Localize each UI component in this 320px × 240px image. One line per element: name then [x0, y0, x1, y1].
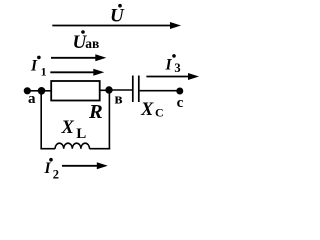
wire capacitor to node c — [140, 90, 180, 92]
svg-text:X: X — [61, 118, 75, 138]
svg-text:I: I — [165, 56, 173, 73]
svg-text:ав: ав — [85, 36, 99, 51]
node b junction dot — [105, 86, 112, 93]
current arrow I3 — [146, 73, 199, 80]
inductor XL — [55, 143, 89, 149]
label I2 — [44, 158, 59, 181]
wire right branch vertical — [108, 90, 110, 150]
node a junction dot — [38, 87, 46, 95]
voltage arrow U — [52, 22, 181, 29]
resistor R — [51, 81, 99, 101]
svg-text:I: I — [44, 160, 52, 177]
voltage arrow Uав — [51, 54, 106, 61]
wire node a to resistor — [42, 90, 53, 92]
svg-text:с: с — [177, 95, 184, 111]
label Uав — [73, 30, 100, 53]
label XL — [61, 118, 87, 142]
wire node b to capacitor — [109, 89, 132, 91]
svg-text:а: а — [28, 91, 36, 107]
label U — [110, 4, 125, 27]
node c dot — [176, 88, 183, 95]
svg-text:L: L — [76, 126, 86, 142]
svg-text:I: I — [30, 58, 38, 75]
svg-text:R: R — [88, 101, 103, 123]
current arrow I1 — [50, 69, 104, 76]
svg-text:C: C — [155, 106, 164, 120]
wire resistor to node b — [100, 89, 109, 91]
node a terminal dot — [24, 87, 31, 94]
svg-text:в: в — [115, 91, 123, 107]
current arrow I2 — [62, 162, 108, 169]
capacitor XC — [133, 76, 139, 103]
label I3 — [165, 54, 181, 75]
label XC — [140, 100, 164, 120]
wire bottom right — [90, 148, 111, 150]
wire left branch vertical — [40, 91, 42, 149]
svg-text:X: X — [140, 100, 154, 120]
svg-text:U: U — [110, 6, 125, 27]
wire terminal to node a — [27, 90, 41, 92]
svg-text:1: 1 — [41, 65, 47, 79]
label I1 — [30, 56, 47, 79]
wire bottom left — [40, 148, 55, 150]
svg-text:2: 2 — [53, 167, 59, 181]
svg-text:3: 3 — [174, 61, 180, 75]
